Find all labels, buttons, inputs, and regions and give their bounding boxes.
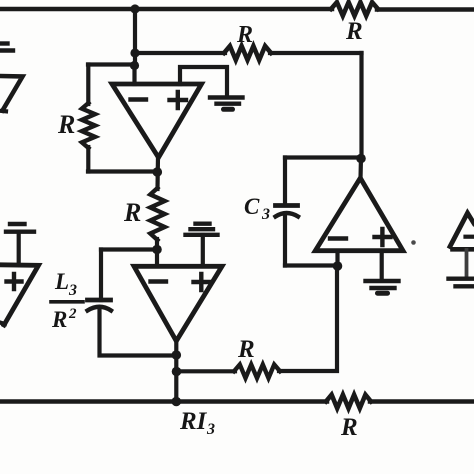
label U3 minus input (330, 236, 346, 240)
wire feedback bottom segment U1 (88, 169, 157, 173)
svg-text:R: R (237, 336, 255, 363)
op-amp U2 (134, 266, 222, 341)
svg-text:R: R (345, 18, 363, 45)
svg-text:R: R (123, 198, 141, 227)
resistor R (series between U1 and U2) (150, 188, 164, 240)
node U3 inverting input junction (333, 261, 343, 271)
ground at right edge (449, 279, 474, 287)
op-amp partial at mid-left edge (previous stage) (0, 265, 39, 325)
wire U2 output down to bottom bus (174, 340, 178, 402)
resistor R (top bus) (331, 2, 378, 16)
node U2 inverting input junction (152, 245, 162, 255)
node stray ink dot near U3 (411, 240, 416, 245)
wire feedback vertical lower U1 (86, 147, 90, 172)
node U1 output junction (153, 167, 163, 177)
node U2 output junction upper (172, 350, 182, 360)
wire C3 bottom segment to U3 inverting node (285, 263, 338, 267)
label plus input of mid-left partial op-amp (7, 274, 22, 289)
svg-text:R: R (51, 307, 67, 332)
label U1 plus input (170, 92, 187, 108)
svg-text:3: 3 (68, 282, 77, 299)
ground above mid-left partial op-amp (inverted) (6, 224, 34, 232)
node U1 inverting input junction (130, 61, 139, 70)
op-amp U3 (points up) (315, 178, 403, 251)
wire bottom bus left segment (0, 399, 327, 404)
capacitor C3 bottom plate (276, 213, 299, 217)
wire bottom bus right segment (370, 399, 474, 404)
wire U1 non-inverting branch up-right to ground (180, 67, 227, 96)
svg-text:R: R (236, 22, 253, 48)
op-amp partial at top-left edge (previous stage) (0, 76, 23, 111)
wire feedback top segment U1 (88, 62, 134, 66)
ground at U1 non-inverting input (210, 98, 243, 110)
svg-text:3: 3 (206, 421, 215, 438)
capacitor C3 top plate (276, 203, 298, 208)
wire C3 top segment (285, 155, 361, 159)
wire U2 feedback vertical upper (99, 250, 103, 301)
label U3 plus input (375, 229, 391, 245)
node junction at y53 (130, 48, 139, 57)
svg-text:2: 2 (68, 306, 77, 322)
ground above U2 non-inverting input (inverted) (186, 224, 218, 235)
node top bus junction (130, 4, 139, 13)
label C3 (244, 194, 270, 223)
wire top bus left segment (0, 7, 332, 12)
wire tick at apex of top-left partial op-amp (0, 109, 6, 114)
wire ground stub to mid-left partial op-amp (17, 232, 21, 264)
wire capacitor to U2 output (100, 310, 177, 356)
label RI3 (node voltage) (179, 408, 215, 438)
wire U2 non-inverting stub up to ground (201, 235, 205, 266)
resistor R (U2 output to U3) (234, 365, 280, 379)
wire series resistor to U2 inverting input (155, 239, 159, 266)
wire U1 output down to series resistor (155, 156, 160, 189)
svg-text:3: 3 (261, 206, 270, 223)
label U1 minus input (131, 97, 147, 101)
op-amp U1 (112, 84, 202, 158)
wire tick at apex of mid-left partial op-amp (0, 323, 5, 325)
svg-text:R: R (57, 110, 75, 139)
wire stub of right-edge partial op-amp to ground (465, 250, 469, 277)
op-amp partial at right edge (next stage) (450, 213, 474, 247)
wire U3 inverting stub (335, 251, 339, 266)
svg-text:RI: RI (179, 408, 208, 435)
wire U2 feedback top segment (101, 247, 157, 251)
wire C3 vertical upper (283, 158, 287, 205)
wire U2 output to output resistor (177, 369, 236, 373)
capacitor L3/R2 top plate (88, 298, 111, 303)
svg-text:R: R (340, 414, 358, 441)
wire top bus right segment (377, 7, 474, 12)
label L3 over R2 fraction (51, 269, 77, 332)
label U2 minus input (151, 279, 167, 283)
wire y53 right segment to corner (270, 51, 362, 55)
wire U1 inverting stub (132, 64, 136, 84)
wire C3 vertical lower (283, 216, 287, 266)
capacitor L3/R2 bottom plate (88, 307, 112, 311)
svg-text:L: L (54, 269, 69, 294)
wire feedback vertical upper U1 (86, 65, 90, 105)
node U2 output junction lower (172, 367, 182, 377)
wire vertical corner down to op-amp U3 (359, 53, 363, 159)
svg-text:C: C (244, 194, 260, 219)
node U3 input junction top (356, 154, 366, 164)
wire output resistor to corner up to U3 inverting (279, 267, 337, 372)
wire U3 apex stub (358, 157, 363, 179)
resistor R (wire y53) (224, 46, 271, 60)
ground at U3 non-inverting input (366, 281, 399, 293)
resistor R (U1 feedback) (82, 103, 95, 148)
wire U3 non-inverting stub down to ground (380, 251, 384, 280)
ground partial at top-left edge (previous stage) (0, 44, 13, 51)
label minus input of right-edge partial op-amp (466, 235, 474, 239)
node bottom bus junction (172, 397, 182, 407)
wire vertical from top bus to op-amp U1 inverting input (133, 9, 137, 66)
resistor R (bottom bus) (326, 395, 371, 409)
fraction bar of L3/R2 (51, 300, 83, 304)
wire y53 left segment to resistor (135, 51, 225, 55)
label U2 plus input (194, 274, 210, 290)
wire base of right-edge partial op-amp (453, 247, 474, 252)
